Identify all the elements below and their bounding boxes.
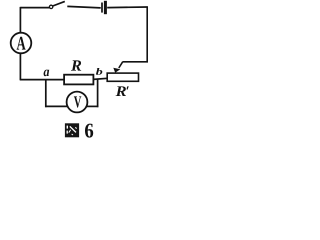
switch S1: pivot circle (49, 5, 52, 8)
wire: node b vertical drop (97, 79, 99, 107)
wire: voltmeter branch horizontal right (voltmeter to node b drop) (86, 105, 98, 107)
node b label (96, 68, 102, 75)
rheostat slider arrow (diagonal with arrowhead onto box top) (113, 62, 122, 73)
resistor R (box) (64, 75, 93, 85)
wire: voltmeter branch horizontal left (a drop to voltmeter) (45, 105, 68, 107)
rheostat value label R' (116, 86, 129, 96)
wire: top-left horizontal from left corner to switch (20, 7, 49, 9)
battery BT1: thin plate (101, 3, 103, 13)
wire: switch fixed contact to battery (67, 6, 100, 8)
wire: bottom-left horizontal (corner to resistor R left lead, through node a) (20, 79, 64, 81)
wire: node a vertical drop to voltmeter branch (45, 79, 47, 107)
ammeter A1 (circle with letter A) (11, 33, 32, 54)
rheostat R' (box) (107, 73, 138, 81)
wire: node b to rheostat left lead (93, 78, 107, 79)
wire: top horizontal from battery to right corner (107, 6, 148, 9)
resistor value label R (71, 60, 81, 70)
switch S1: blade (open) (53, 1, 65, 6)
wire: left vertical lower segment (ammeter bottom to bottom-left corner) (19, 53, 21, 80)
caption digit 6 (85, 124, 93, 138)
wire: right vertical (battery side down to slider wire) (146, 7, 148, 63)
wire: upper-right horizontal (right vertical to slider) (122, 61, 148, 63)
caption glyph 图 (hand-drawn) (65, 123, 79, 137)
battery BT1: thick plate (104, 1, 107, 14)
node a label (44, 70, 50, 77)
voltmeter V1 (circle with letter V) (67, 92, 88, 113)
wire: left vertical upper segment (corner to ammeter top) (19, 7, 21, 33)
